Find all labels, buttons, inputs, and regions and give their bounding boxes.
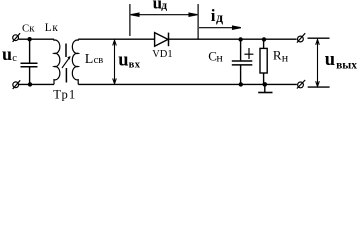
node Cn top	[238, 37, 242, 41]
svg-text:u: u	[2, 44, 12, 64]
node Rn top	[262, 37, 266, 41]
terminal output top	[297, 33, 305, 42]
svg-text:Lк: Lк	[45, 22, 59, 34]
voltage dimension u_d	[131, 13, 198, 16]
dimension tick right	[197, 4, 199, 39]
svg-text:н: н	[282, 51, 289, 65]
svg-text:u: u	[325, 50, 335, 70]
svg-text:св: св	[94, 55, 104, 66]
capacitor Cn	[232, 39, 253, 84]
svg-text:L: L	[85, 52, 94, 67]
diode VD1	[155, 33, 169, 47]
transformer tuning arrow	[62, 57, 70, 68]
capacitor Ck	[21, 39, 38, 84]
inductor Lk transformer primary	[54, 39, 60, 84]
tick top u_out	[308, 37, 330, 39]
ground	[258, 84, 272, 92]
dimension tick left	[129, 4, 131, 36]
svg-text:н: н	[216, 51, 223, 65]
svg-text:вых: вых	[336, 59, 357, 71]
svg-text:Тр1: Тр1	[53, 87, 76, 101]
wire top-left	[19, 38, 54, 40]
node Ck top	[27, 37, 31, 41]
terminal output bottom	[297, 80, 305, 89]
tick bottom u_out	[308, 86, 330, 88]
voltage arrow u_vx	[113, 40, 117, 83]
svg-text:д: д	[216, 11, 223, 26]
current arrow i_d	[199, 26, 241, 29]
svg-text:д: д	[161, 0, 167, 12]
svg-text:u: u	[118, 50, 128, 70]
terminal input bottom	[13, 80, 21, 89]
svg-text:c: c	[12, 53, 17, 64]
polarity plus	[244, 48, 253, 59]
terminal input top	[13, 33, 21, 42]
transformer core	[65, 44, 67, 83]
svg-text:Ск: Ск	[22, 22, 35, 34]
svg-text:вх: вх	[129, 59, 141, 70]
node Cn bottom	[239, 82, 243, 86]
wire bottom rail right	[78, 83, 297, 85]
node Ck bottom	[28, 82, 32, 86]
svg-text:VD1: VD1	[152, 49, 172, 60]
svg-text:R: R	[273, 47, 282, 62]
resistor Rn	[260, 39, 267, 84]
voltage arrow u_out	[316, 40, 320, 87]
wire bottom-left rail	[19, 83, 54, 85]
wire secondary top to diode	[78, 38, 154, 40]
wire diode to right	[169, 38, 297, 40]
node ground junction	[263, 82, 268, 87]
inductor Lsv transformer secondary	[72, 39, 78, 84]
